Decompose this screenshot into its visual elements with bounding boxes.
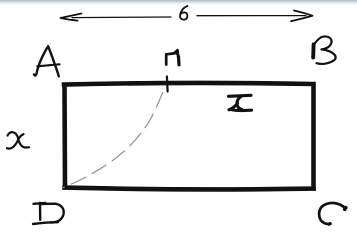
vertex label D xyxy=(33,203,64,224)
vertex label B xyxy=(311,45,315,58)
top gradient bar xyxy=(0,0,357,5)
dimension line right segment xyxy=(197,15,306,17)
tick mark at M xyxy=(166,77,169,92)
point label M xyxy=(166,50,178,64)
label 6 xyxy=(180,6,187,20)
side label x (left) xyxy=(8,132,30,147)
rectangle ABCD xyxy=(64,83,314,189)
segment label x (inner, MB = x) xyxy=(229,95,252,110)
right arrowhead xyxy=(291,11,313,22)
dimension line left segment xyxy=(72,16,171,19)
left arrowhead xyxy=(61,14,82,21)
vertex label A xyxy=(34,46,59,76)
dashed arc M to D xyxy=(62,92,163,188)
vertex label C xyxy=(319,203,345,224)
